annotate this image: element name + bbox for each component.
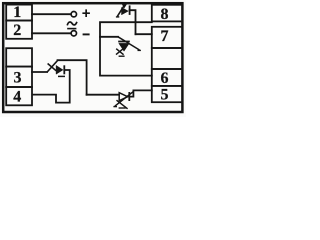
svg-text:1: 1 <box>13 4 21 21</box>
svg-text:6: 6 <box>161 70 169 87</box>
svg-text:4: 4 <box>13 89 21 106</box>
svg-text:5: 5 <box>161 87 169 104</box>
svg-text:8: 8 <box>161 6 169 23</box>
svg-text:7: 7 <box>161 28 169 45</box>
svg-text:3: 3 <box>14 70 22 87</box>
svg-text:2: 2 <box>13 22 21 39</box>
